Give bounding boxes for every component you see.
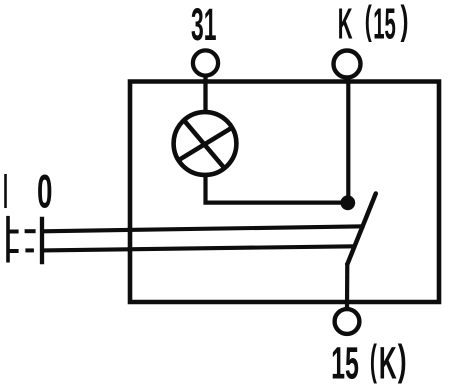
wire lamp to junction: [206, 173, 345, 203]
svg-text:K: K: [379, 337, 397, 384]
actuator knob bar: [6, 216, 10, 263]
terminal K (15): [334, 51, 361, 78]
svg-text:): ): [401, 0, 409, 43]
actuator rod 2 to blade: [42, 246, 355, 250]
actuator dash row 2: [25, 248, 34, 252]
label K (15): [338, 0, 409, 48]
wire terminal-K(15) to junction: [346, 78, 350, 200]
wire blade pivot to terminal 15(K): [345, 263, 349, 308]
actuator plunger bar: [40, 217, 44, 264]
svg-text:31: 31: [191, 0, 217, 50]
junction node (fixed contact): [340, 195, 355, 210]
switch S blade (open contact): [347, 194, 376, 265]
housing outline (switch body): [130, 82, 439, 303]
actuator stub row 1: [8, 230, 19, 234]
svg-text:(: (: [370, 337, 377, 384]
label 15 (K): [331, 337, 407, 384]
wire terminal-31 to lamp: [203, 76, 207, 113]
lamp E1 (indicator light): [174, 112, 237, 175]
svg-text:15: 15: [331, 337, 359, 384]
label 31: [191, 0, 217, 50]
svg-text:): ): [398, 337, 407, 384]
actuator dash row 1: [25, 229, 36, 233]
actuator stub row 2: [8, 249, 19, 253]
svg-text:15: 15: [373, 0, 396, 48]
svg-text:(: (: [365, 0, 372, 43]
svg-text:0: 0: [37, 165, 53, 218]
actuator rod 1 to blade: [42, 226, 365, 231]
svg-text:K: K: [338, 0, 353, 48]
terminal 15 (K): [335, 309, 360, 334]
label 0 (position off): [37, 165, 53, 218]
terminal 31: [193, 50, 218, 75]
label I (position on): [4, 174, 7, 208]
